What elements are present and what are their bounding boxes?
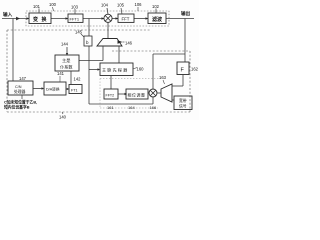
leader 140 [62,112,63,114]
svg-text:FT1: FT1 [71,89,78,93]
box 145 small [84,36,92,46]
svg-text:b: b [86,40,89,45]
svg-text:主脉先程器: 主脉先程器 [102,67,129,73]
box 147 processor [8,81,33,95]
svg-text:141: 141 [57,71,65,76]
svg-text:信号: 信号 [179,104,187,109]
mixer U2 [149,89,157,97]
svg-text:103: 103 [71,5,79,10]
wire mixer2 bottom feed [152,98,154,105]
box 144 coefficient [55,55,79,71]
svg-text:162: 162 [191,67,199,72]
wire output branch down [184,19,186,63]
leader 101 [38,9,40,14]
svg-text:D/A转换: D/A转换 [46,87,60,92]
leader 103 [74,9,76,14]
wire feedback tap down [88,19,90,37]
wire selector2 to mixer2 [158,92,162,94]
svg-text:164: 164 [128,105,135,110]
wire gen to trap [172,99,174,101]
svg-text:宽带: 宽带 [179,98,187,103]
leader 141 [59,76,61,82]
svg-text:FFT2: FFT2 [106,94,115,98]
dashed enclosure 100 top row [26,11,169,26]
svg-text:104: 104 [101,3,109,8]
svg-text:105: 105 [117,3,125,8]
svg-text:140: 140 [59,115,67,120]
dashed enclosure 140 bottom [7,30,190,112]
wire box1 to FFT1 [51,18,68,20]
svg-text:主是: 主是 [62,57,71,64]
box phase adjust [126,89,148,99]
box FFT1 [68,14,83,22]
svg-text:142: 142 [74,77,82,82]
wire mixer1 top leader [107,8,108,14]
wire mixer to FFT [112,18,118,20]
mixer U1 [104,14,112,22]
svg-text:106: 106 [135,2,143,7]
leader 146 [123,41,125,43]
svg-text:161: 161 [107,105,114,110]
svg-text:处理器: 处理器 [14,89,26,94]
svg-text:160: 160 [137,67,145,72]
svg-text:F: F [181,68,185,74]
box 160 oscillator [100,63,133,76]
leader 102 [155,9,157,14]
leader 105 [121,8,122,14]
trapezoid 146 selector [97,39,122,47]
svg-text:146: 146 [125,41,133,46]
svg-text:相位调整: 相位调整 [128,92,146,97]
leader 145 [81,34,84,37]
svg-text:166: 166 [150,105,157,110]
wire FFT1 to mixer [83,18,104,20]
box wideband generator [174,96,192,110]
svg-text:FFT: FFT [122,17,130,22]
svg-text:知内位伐基字B: 知内位伐基字B [3,105,30,110]
box 141 DA converter [44,82,66,95]
wire coeff box down to C [70,71,72,85]
wire mixer1 down to trapezoid [107,22,109,38]
svg-text:102: 102 [152,4,160,9]
box 102 filter [148,13,166,24]
svg-text:FFT1: FFT1 [70,17,80,22]
wire main input line [2,18,29,20]
leader 163 [163,80,165,84]
svg-text:163: 163 [159,75,167,80]
wire filter to output [166,18,194,20]
input arrowhead [17,17,20,19]
wire into osc [89,69,99,71]
leader 100 [53,7,54,11]
wire B to C [66,88,68,90]
svg-text:输入: 输入 [3,11,13,18]
box FFT2 [104,89,118,99]
wire mixer2 top to feedback [152,54,154,89]
svg-text:100: 100 [49,2,57,7]
box 142 small [69,85,82,94]
wire A to B [33,88,43,90]
leader 160 [133,68,137,70]
wire trap right input from osc [118,46,120,63]
svg-text:仆系数: 仆系数 [60,64,73,71]
wire bottom horizontal to mixer2 [89,103,153,105]
box 101 transform [29,13,51,24]
wire FFT to filter [134,18,148,20]
wire arrow into coefficient box [66,47,68,55]
svg-text:C/N: C/N [15,85,22,89]
wire trap left input [79,60,103,62]
svg-text:145: 145 [75,30,83,35]
arrowhead selector output [118,40,123,44]
svg-text:变换: 变换 [33,16,50,23]
trapezoid 165 selector [161,84,172,102]
wire osc down to FFT2 [110,76,112,90]
wire note leader [21,95,23,99]
svg-text:滤波: 滤波 [152,16,162,23]
leader 106 [137,7,139,11]
arrowheads main line [27,17,149,19]
box FFT [118,14,134,22]
svg-text:C加未知位置于乙B,: C加未知位置于乙B, [4,100,37,105]
svg-text:101: 101 [33,4,41,9]
wire input branch down [12,19,14,82]
svg-text:147: 147 [19,76,27,81]
svg-text:输出: 输出 [181,10,191,17]
wire F box down to trap [182,75,184,87]
svg-text:144: 144 [61,42,69,47]
box 162 F [177,62,189,75]
dashed inner enclosure bottom-right [100,79,160,109]
wire FFT2 to phase [118,93,126,95]
